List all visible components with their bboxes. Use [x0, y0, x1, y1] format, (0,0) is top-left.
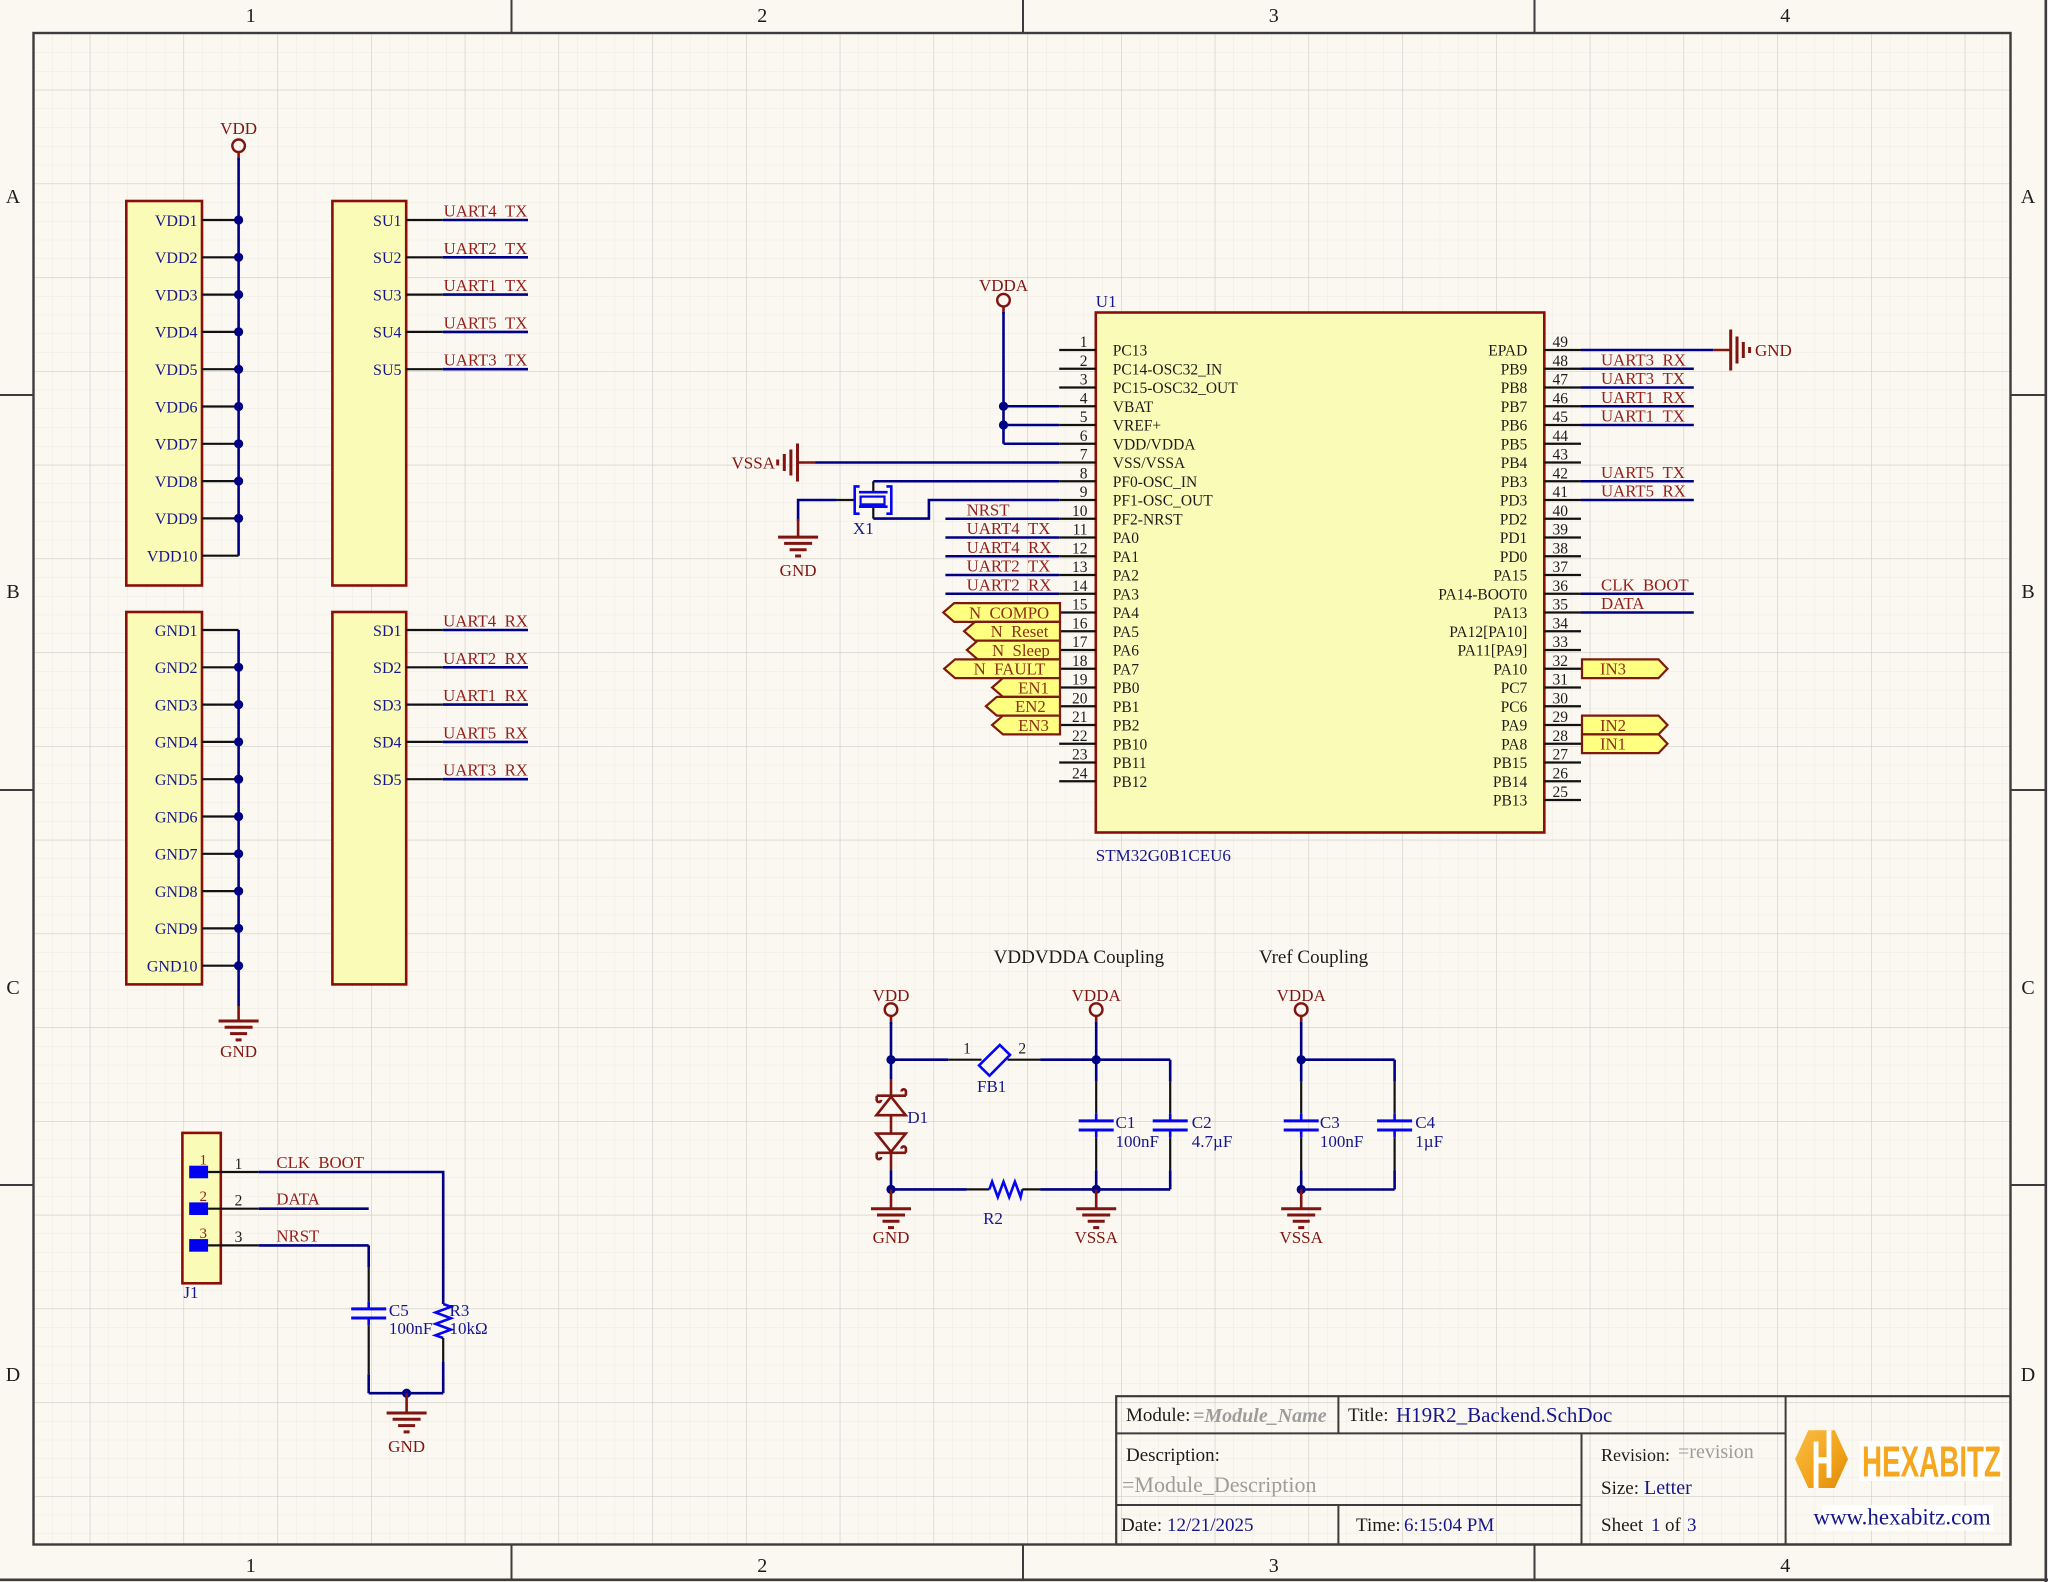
- svg-text:PB10: PB10: [1113, 736, 1148, 753]
- svg-text:PD1: PD1: [1500, 530, 1528, 547]
- svg-text:PD0: PD0: [1500, 549, 1528, 566]
- pin 1 of J1: [189, 1153, 259, 1179]
- svg-text:2: 2: [1018, 1041, 1026, 1058]
- wire DATA: [259, 1207, 369, 1210]
- svg-text:U1: U1: [1096, 292, 1117, 311]
- svg-text:43: 43: [1553, 447, 1569, 464]
- svg-text:GND2: GND2: [155, 660, 198, 677]
- svg-text:PC6: PC6: [1501, 699, 1528, 716]
- svg-text:C: C: [6, 977, 19, 999]
- pin 18 PA7: [1059, 653, 1139, 679]
- port EN3 pin21: [992, 716, 1060, 735]
- svg-text:UART3 TX: UART3 TX: [444, 351, 528, 370]
- pin GND8: [155, 884, 239, 901]
- wire net UART5&#160;&#160;RX pin41: [1581, 499, 1694, 502]
- power ground GND (right of U1): [1713, 330, 1792, 371]
- svg-text:31: 31: [1553, 672, 1569, 689]
- svg-text:PA5: PA5: [1113, 624, 1139, 641]
- resistor R3: [436, 1304, 451, 1362]
- wire net UART3&#160;&#160;RX pin48: [1581, 367, 1694, 370]
- svg-text:D1: D1: [907, 1108, 928, 1127]
- pin 31 PC7: [1501, 672, 1581, 698]
- junction GND3: [234, 700, 243, 709]
- wire VSS/VSSA pin7: [815, 461, 1059, 464]
- svg-text:2: 2: [757, 5, 767, 27]
- pin 13 PA2: [1059, 559, 1139, 585]
- svg-text:PB2: PB2: [1113, 718, 1140, 735]
- svg-text:VDDA: VDDA: [979, 276, 1029, 295]
- svg-text:GND9: GND9: [155, 921, 198, 938]
- svg-text:PB13: PB13: [1493, 793, 1528, 810]
- pin 17 PA6: [1059, 634, 1139, 660]
- svg-text:PD2: PD2: [1500, 511, 1528, 528]
- wire net UART3&#160;&#160;TX pin47: [1581, 386, 1694, 389]
- svg-text:UART3 TX: UART3 TX: [1601, 369, 1685, 388]
- junction GND9: [234, 924, 243, 933]
- capacitor C4: [1377, 1060, 1412, 1190]
- pin 47 PB8: [1501, 372, 1581, 398]
- pin SU2: [373, 250, 443, 267]
- svg-text:N FAULT: N FAULT: [974, 660, 1046, 679]
- svg-text:UART1 RX: UART1 RX: [443, 686, 528, 705]
- svg-text:12/21/2025: 12/21/2025: [1167, 1515, 1254, 1536]
- svg-text:PC14-OSC32_IN: PC14-OSC32_IN: [1113, 361, 1222, 378]
- svg-text:5: 5: [1080, 409, 1088, 426]
- wire VDDA to VBAT/VREF+/VDD pins: [1004, 312, 1060, 444]
- pin 34 PA12[PA10]: [1449, 615, 1581, 641]
- svg-text:4: 4: [1780, 5, 1790, 27]
- ferrite bead FB1: [948, 1041, 1040, 1076]
- svg-text:VDD/VDDA: VDD/VDDA: [1113, 436, 1196, 453]
- svg-text:27: 27: [1553, 747, 1569, 764]
- junction GND8: [234, 887, 243, 896]
- svg-text:PF0-OSC_IN: PF0-OSC_IN: [1113, 474, 1197, 491]
- svg-text:PC15-OSC32_OUT: PC15-OSC32_OUT: [1113, 380, 1238, 397]
- wire net UART TX 2: [443, 256, 528, 259]
- pin 49 EPAD: [1488, 334, 1581, 360]
- svg-text:3: 3: [1687, 1515, 1697, 1536]
- junction VDD4: [234, 327, 243, 336]
- junction VDD2: [234, 253, 243, 262]
- pin VDD2: [155, 250, 239, 267]
- svg-text:13: 13: [1072, 559, 1088, 576]
- pin 25 PB13: [1493, 784, 1581, 810]
- svg-text:GND: GND: [388, 1437, 425, 1456]
- resistor R2: [967, 1182, 1041, 1197]
- svg-text:PF1-OSC_OUT: PF1-OSC_OUT: [1113, 493, 1213, 510]
- wire gnd rail: [369, 1392, 444, 1395]
- pin 3 of J1: [189, 1226, 259, 1252]
- wire VDDA down: [1095, 1022, 1098, 1060]
- junction top (Vref): [1297, 1055, 1306, 1064]
- svg-text:SU3: SU3: [373, 287, 401, 304]
- pin GND4: [155, 735, 239, 752]
- pin 20 PB1: [1059, 690, 1139, 716]
- svg-text:N COMPO: N COMPO: [969, 603, 1049, 622]
- svg-text:28: 28: [1553, 728, 1569, 745]
- svg-text:100nF: 100nF: [1320, 1132, 1363, 1151]
- junction VDDA top: [1092, 1055, 1101, 1064]
- wire net UART TX 5: [443, 368, 528, 371]
- svg-text:SU4: SU4: [373, 325, 401, 342]
- power port VDD (top left): [220, 119, 257, 160]
- svg-text:A: A: [6, 186, 21, 208]
- junction bottom (Vref): [1297, 1185, 1306, 1194]
- pin 39 PD1: [1500, 522, 1581, 548]
- svg-text:EPAD: EPAD: [1488, 343, 1527, 360]
- svg-text:VREF+: VREF+: [1113, 418, 1161, 435]
- svg-text:14: 14: [1072, 578, 1088, 595]
- svg-text:VDD10: VDD10: [147, 549, 198, 566]
- IC U1 body: [1096, 313, 1545, 833]
- junction VDD3: [234, 290, 243, 299]
- pin 43 PB4: [1501, 447, 1581, 473]
- svg-text:35: 35: [1553, 597, 1569, 614]
- pin 6 VDD/VDDA: [1059, 428, 1196, 454]
- capacitor C5: [351, 1245, 386, 1393]
- pin GND5: [155, 772, 239, 789]
- svg-text:37: 37: [1553, 559, 1569, 576]
- svg-text:PB5: PB5: [1501, 436, 1528, 453]
- svg-text:NRST: NRST: [276, 1226, 319, 1245]
- svg-text:STM32G0B1CEU6: STM32G0B1CEU6: [1096, 846, 1231, 865]
- svg-text:Size:: Size:: [1601, 1478, 1639, 1499]
- svg-text:IN3: IN3: [1600, 660, 1626, 679]
- junction VDD7: [234, 439, 243, 448]
- wire pin8 PF0-OSC_IN to crystal: [873, 480, 1059, 483]
- pin 8 PF0-OSC_IN: [1059, 465, 1197, 491]
- svg-text:PA2: PA2: [1113, 568, 1139, 585]
- svg-text:Vref Coupling: Vref Coupling: [1259, 947, 1369, 968]
- junction VDDA pin5: [999, 420, 1008, 429]
- svg-text:PB6: PB6: [1501, 418, 1528, 435]
- svg-text:1µF: 1µF: [1415, 1132, 1443, 1151]
- svg-text:www.hexabitz.com: www.hexabitz.com: [1813, 1505, 1990, 1530]
- pin GND9: [155, 921, 239, 938]
- svg-text:3: 3: [200, 1226, 208, 1242]
- svg-text:1: 1: [1080, 334, 1088, 351]
- svg-text:D: D: [6, 1364, 20, 1386]
- pin 33 PA11[PA9]: [1458, 634, 1581, 660]
- pin VDD8: [155, 474, 239, 491]
- pin GND6: [155, 809, 239, 826]
- svg-text:GND3: GND3: [155, 697, 198, 714]
- capacitor C3: [1284, 1060, 1319, 1190]
- svg-text:2: 2: [235, 1193, 243, 1210]
- svg-text:2: 2: [200, 1189, 208, 1205]
- svg-text:UART5 RX: UART5 RX: [1601, 482, 1686, 501]
- svg-text:19: 19: [1072, 672, 1088, 689]
- port IN1 pin28: [1582, 734, 1668, 753]
- svg-text:PB12: PB12: [1113, 774, 1147, 791]
- svg-text:R2: R2: [983, 1209, 1003, 1228]
- wire net UART2&#160;&#160;RX pin14: [945, 592, 1059, 595]
- svg-text:100nF: 100nF: [1116, 1132, 1159, 1151]
- svg-text:PA7: PA7: [1113, 661, 1139, 678]
- svg-text:=Module_Description: =Module_Description: [1122, 1472, 1317, 1497]
- svg-text:100nF: 100nF: [389, 1319, 432, 1338]
- pin 22 PB10: [1059, 728, 1147, 754]
- svg-text:7: 7: [1080, 447, 1088, 464]
- svg-text:PC7: PC7: [1501, 680, 1528, 697]
- svg-text:21: 21: [1072, 709, 1088, 726]
- svg-text:UART1 TX: UART1 TX: [1601, 407, 1685, 426]
- svg-text:PB11: PB11: [1113, 755, 1147, 772]
- svg-text:PA8: PA8: [1501, 736, 1527, 753]
- svg-text:1: 1: [963, 1041, 971, 1058]
- svg-text:PA1: PA1: [1113, 549, 1139, 566]
- wire D1 to bottom rail: [890, 1170, 893, 1189]
- svg-text:PC13: PC13: [1113, 343, 1148, 360]
- svg-text:N Sleep: N Sleep: [992, 641, 1050, 660]
- svg-text:UART4 RX: UART4 RX: [967, 538, 1052, 557]
- svg-text:VSS/VSSA: VSS/VSSA: [1113, 455, 1186, 472]
- svg-text:UART2 RX: UART2 RX: [967, 575, 1052, 594]
- svg-text:VDD: VDD: [220, 119, 257, 138]
- wire R3 to gnd rail: [442, 1362, 445, 1393]
- port N&#160;&#160;FAULT pin18: [944, 659, 1060, 678]
- pin GND7: [155, 847, 239, 864]
- capacitor C2: [1153, 1060, 1188, 1190]
- svg-text:4: 4: [1080, 390, 1088, 407]
- svg-text:45: 45: [1553, 409, 1569, 426]
- power port VDDA (coupling): [1072, 986, 1122, 1024]
- svg-text:3: 3: [235, 1229, 243, 1246]
- svg-text:Letter: Letter: [1644, 1477, 1692, 1499]
- pin SD2: [373, 660, 443, 677]
- svg-text:20: 20: [1072, 690, 1088, 707]
- pin SU1: [373, 213, 443, 230]
- pin 11 PA0: [1059, 522, 1139, 548]
- port N&#160;&#160;Reset pin16: [964, 622, 1060, 641]
- svg-text:PA11[PA9]: PA11[PA9]: [1458, 643, 1528, 660]
- svg-text:34: 34: [1553, 615, 1569, 632]
- svg-text:CLK BOOT: CLK BOOT: [276, 1153, 364, 1172]
- svg-text:2: 2: [1080, 353, 1088, 370]
- junction GND7: [234, 849, 243, 858]
- svg-text:10kΩ: 10kΩ: [450, 1319, 488, 1338]
- svg-text:UART1 TX: UART1 TX: [444, 276, 528, 295]
- svg-text:of: of: [1665, 1515, 1682, 1536]
- svg-text:A: A: [2021, 186, 2036, 208]
- pin VDD5: [155, 362, 239, 379]
- svg-text:15: 15: [1072, 597, 1088, 614]
- pin VDD4: [155, 325, 239, 342]
- pin VDD10: [147, 549, 239, 566]
- wire net UART4&#160;&#160;RX pin12: [945, 555, 1059, 558]
- capacitor C1: [1079, 1060, 1114, 1190]
- port EN2 pin20: [986, 697, 1060, 716]
- svg-text:C2: C2: [1192, 1113, 1212, 1132]
- sheet symbol SD1-SD5 box: [332, 612, 406, 984]
- svg-text:PA13: PA13: [1493, 605, 1527, 622]
- connector J1 body: [182, 1133, 220, 1283]
- svg-text:PD3: PD3: [1500, 493, 1528, 510]
- svg-text:=Module_Name: =Module_Name: [1193, 1405, 1327, 1427]
- wire top rail (Vref): [1301, 1058, 1394, 1061]
- crystal X1: [837, 481, 892, 518]
- svg-text:SD3: SD3: [373, 697, 401, 714]
- wire net UART4&#160;&#160;TX pin11: [945, 536, 1059, 539]
- svg-text:1: 1: [246, 1555, 256, 1577]
- pin SD1: [373, 623, 443, 640]
- svg-text:UART4 TX: UART4 TX: [967, 519, 1051, 538]
- wire top rail right: [1041, 1058, 1171, 1061]
- power port VDD (coupling): [873, 986, 910, 1024]
- pin 35 PA13: [1493, 597, 1581, 623]
- pin VDD1: [155, 213, 239, 230]
- pin 23 PB11: [1059, 747, 1146, 773]
- svg-text:VDD9: VDD9: [155, 511, 198, 528]
- wire net UART RX 1: [443, 629, 528, 632]
- svg-text:GND7: GND7: [155, 847, 198, 864]
- pin VDD6: [155, 399, 239, 416]
- svg-text:SU5: SU5: [373, 362, 401, 379]
- svg-text:EN2: EN2: [1015, 697, 1046, 716]
- svg-text:42: 42: [1553, 465, 1569, 482]
- junction VDD9: [234, 514, 243, 523]
- svg-text:C4: C4: [1415, 1113, 1435, 1132]
- svg-text:1: 1: [246, 5, 256, 27]
- wire net UART TX 4: [443, 331, 528, 334]
- svg-text:SD1: SD1: [373, 623, 401, 640]
- svg-text:C5: C5: [389, 1301, 409, 1320]
- svg-text:VDD5: VDD5: [155, 362, 198, 379]
- wire net UART RX 2: [443, 666, 528, 669]
- svg-text:VDD6: VDD6: [155, 399, 198, 416]
- svg-text:SU2: SU2: [373, 250, 401, 267]
- TVS diode D1: [876, 1060, 906, 1170]
- port N&#160;&#160;COMPO pin15: [943, 603, 1060, 622]
- sheet symbol SU1-SU5 box: [332, 201, 406, 586]
- svg-text:30: 30: [1553, 690, 1569, 707]
- svg-text:NRST: NRST: [967, 500, 1010, 519]
- svg-text:DATA: DATA: [1601, 594, 1644, 613]
- svg-text:PB7: PB7: [1501, 399, 1528, 416]
- svg-text:UART2 RX: UART2 RX: [443, 649, 528, 668]
- svg-text:UART2 TX: UART2 TX: [967, 557, 1051, 576]
- pin GND10: [147, 959, 239, 976]
- svg-text:PB15: PB15: [1493, 755, 1528, 772]
- svg-text:29: 29: [1553, 709, 1569, 726]
- svg-text:VDD1: VDD1: [155, 213, 198, 230]
- svg-text:3: 3: [1080, 372, 1088, 389]
- svg-text:22: 22: [1072, 728, 1088, 745]
- svg-text:1: 1: [1651, 1515, 1661, 1536]
- svg-text:J1: J1: [183, 1283, 198, 1302]
- svg-text:UART1 RX: UART1 RX: [1601, 388, 1686, 407]
- svg-text:24: 24: [1072, 765, 1088, 782]
- wire net CLK&#160;&#160;BOOT pin36: [1581, 592, 1694, 595]
- svg-text:GND: GND: [873, 1228, 910, 1247]
- svg-text:EN3: EN3: [1018, 716, 1049, 735]
- svg-text:17: 17: [1072, 634, 1088, 651]
- junction VDD6: [234, 402, 243, 411]
- pin 36 PA14-BOOT0: [1438, 578, 1581, 604]
- svg-text:GND10: GND10: [147, 959, 198, 976]
- wire bottom rail (Vref): [1301, 1188, 1394, 1191]
- pin 41 PD3: [1500, 484, 1581, 510]
- svg-text:R3: R3: [450, 1301, 470, 1320]
- svg-text:41: 41: [1553, 484, 1569, 501]
- svg-text:8: 8: [1080, 465, 1088, 482]
- svg-text:PA12[PA10]: PA12[PA10]: [1449, 624, 1527, 641]
- wire crystal left to ground: [798, 500, 837, 521]
- wire net UART RX 3: [443, 703, 528, 706]
- svg-text:HEXABITZ: HEXABITZ: [1862, 1438, 2001, 1487]
- svg-text:=revision: =revision: [1678, 1441, 1754, 1463]
- svg-text:11: 11: [1073, 522, 1088, 539]
- junction bottom rail right: [1092, 1185, 1101, 1194]
- wire VDD down: [890, 1022, 893, 1060]
- svg-text:PF2-NRST: PF2-NRST: [1113, 511, 1183, 528]
- pin 19 PB0: [1059, 672, 1140, 698]
- svg-text:PB3: PB3: [1501, 474, 1528, 491]
- svg-text:GND5: GND5: [155, 772, 198, 789]
- svg-text:PA3: PA3: [1113, 586, 1139, 603]
- ground GND (below crystal): [778, 519, 818, 580]
- logo HEXABITZ wordmark: [1860, 1438, 2003, 1487]
- svg-text:9: 9: [1080, 484, 1088, 501]
- pin 28 PA8: [1501, 728, 1581, 754]
- pin 15 PA4: [1059, 597, 1139, 623]
- svg-text:B: B: [6, 581, 19, 603]
- pin 9 PF1-OSC_OUT: [1059, 484, 1213, 510]
- svg-text:Time:: Time:: [1356, 1515, 1401, 1536]
- svg-text:H19R2_Backend.SchDoc: H19R2_Backend.SchDoc: [1396, 1403, 1612, 1427]
- pin 4 VBAT: [1059, 390, 1154, 416]
- svg-text:VSSA: VSSA: [732, 454, 776, 473]
- svg-text:PB0: PB0: [1113, 680, 1140, 697]
- svg-text:Module:: Module:: [1126, 1405, 1190, 1426]
- svg-text:Title:: Title:: [1348, 1405, 1389, 1426]
- svg-text:VDDVDDA Coupling: VDDVDDA Coupling: [994, 947, 1165, 968]
- pin SD3: [373, 697, 443, 714]
- pin 46 PB7: [1501, 390, 1581, 416]
- svg-text:GND1: GND1: [155, 623, 198, 640]
- svg-text:UART3 RX: UART3 RX: [443, 761, 528, 780]
- ground GND (below J1 circuit): [387, 1393, 427, 1456]
- pin SU5: [373, 362, 443, 379]
- svg-text:EN1: EN1: [1018, 678, 1049, 697]
- svg-text:39: 39: [1553, 522, 1569, 539]
- junction VDD8: [234, 477, 243, 486]
- power ground VSSA (Vref coupling): [1279, 1190, 1323, 1248]
- svg-text:1: 1: [200, 1153, 208, 1169]
- svg-text:33: 33: [1553, 634, 1569, 651]
- pin 37 PA15: [1493, 559, 1581, 585]
- svg-text:VDD3: VDD3: [155, 287, 198, 304]
- pin 1 PC13: [1059, 334, 1147, 360]
- port IN3 pin32: [1582, 659, 1668, 678]
- svg-text:N Reset: N Reset: [991, 622, 1049, 641]
- svg-text:2: 2: [757, 1555, 767, 1577]
- svg-text:PB14: PB14: [1493, 774, 1528, 791]
- svg-text:48: 48: [1553, 353, 1569, 370]
- svg-text:UART5 TX: UART5 TX: [1601, 463, 1685, 482]
- svg-text:49: 49: [1553, 334, 1569, 351]
- power ground VSSA (coupling): [1074, 1189, 1118, 1247]
- pin 42 PB3: [1501, 465, 1581, 491]
- pin 32 PA10: [1493, 653, 1581, 679]
- svg-text:UART4 RX: UART4 RX: [443, 612, 528, 631]
- svg-text:D: D: [2021, 1364, 2035, 1386]
- junction VDD1: [234, 215, 243, 224]
- wire net UART TX 1: [443, 219, 528, 222]
- svg-text:PA9: PA9: [1501, 718, 1527, 735]
- svg-text:UART3 RX: UART3 RX: [1601, 350, 1686, 369]
- ground GND (below bus): [219, 1006, 259, 1061]
